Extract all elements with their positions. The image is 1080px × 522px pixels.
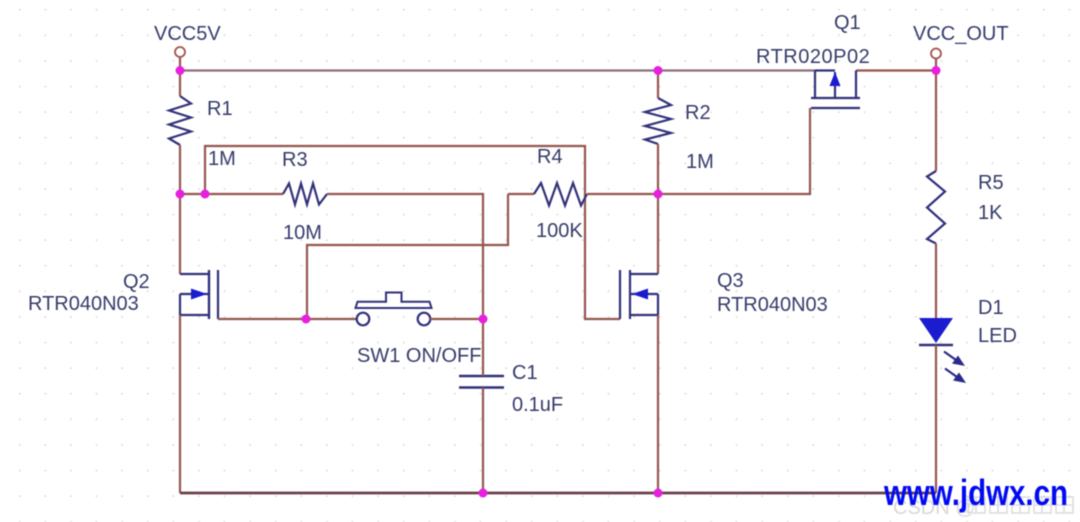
svg-text:VCC5V: VCC5V (154, 23, 221, 45)
svg-text:100K: 100K (536, 220, 583, 242)
svg-text:Q1: Q1 (834, 12, 861, 34)
diode D1 LED (919, 318, 953, 345)
value label LED (978, 325, 1017, 347)
label VCC5V (154, 23, 221, 45)
svg-text:Q3: Q3 (717, 270, 744, 292)
value label 100K (536, 220, 583, 242)
wire: gate feed to Q1 (658, 108, 810, 194)
resistor R4 (534, 183, 587, 206)
label R1 (207, 98, 233, 120)
power port VCC5V circle (175, 47, 185, 57)
value label 1M (R1) (208, 148, 236, 170)
wire: C1 top lead (482, 319, 484, 376)
svg-text:10M: 10M (283, 222, 322, 244)
wire: R4 node path to Q2 gate node (307, 194, 508, 319)
wire: R4 left lead (508, 193, 534, 195)
resistor R2 (645, 98, 671, 144)
wire: bottom ground rail (180, 492, 936, 495)
svg-text:VCC_OUT: VCC_OUT (913, 23, 1009, 45)
wire: Q2 drain (179, 194, 181, 274)
svg-text:RTR020P02: RTR020P02 (756, 46, 870, 68)
transistor Q2 (NMOS RTR040N03) (180, 270, 218, 319)
label Q1 (834, 12, 861, 34)
label SW1 ON/OFF (357, 345, 481, 367)
resistor R1 (169, 96, 191, 145)
wire: C1 bottom lead (482, 388, 484, 494)
wire: R1 bottom lead (179, 145, 181, 194)
junction: rail at VCC_OUT (932, 66, 941, 75)
wire: Q2 gate to SW1 (218, 318, 357, 320)
junction: SW1 right / C1 (479, 315, 488, 324)
value label 10M (283, 222, 322, 244)
label C1 (512, 362, 538, 384)
svg-text:0.1uF: 0.1uF (512, 394, 563, 416)
label D1 (978, 297, 1004, 319)
wire: R5 bottom lead (935, 244, 937, 319)
wire: R3 right lead to SW1 right node (327, 194, 483, 319)
wire: Q1 drain to VCC_OUT (856, 69, 936, 71)
capacitor C1 (459, 376, 504, 388)
junction: Q3 source at bottom rail (654, 489, 663, 498)
svg-text:R3: R3 (282, 149, 308, 171)
svg-text:RTR040N03: RTR040N03 (717, 294, 828, 316)
wire: R2 bottom lead (657, 144, 659, 194)
junction: VCC5V rail at R1 (176, 66, 185, 75)
wire: Q3 drain (657, 194, 659, 274)
svg-text:www.jdwx.cn: www.jdwx.cn (883, 472, 1068, 513)
label R2 (685, 102, 711, 124)
wire: VCC_OUT stub (935, 59, 937, 71)
wire: VCC5V stub (179, 57, 181, 71)
junction: R2 bottom node (654, 190, 663, 199)
LED emission arrows (944, 352, 966, 384)
resistor R3 (283, 184, 327, 205)
label R3 (282, 149, 308, 171)
wire: R4 right lead (587, 193, 658, 195)
wire: Q2 source to bottom rail (179, 315, 181, 493)
wire: R1 top lead (179, 71, 181, 97)
svg-text:C1: C1 (512, 362, 538, 384)
svg-text:1K: 1K (978, 202, 1003, 224)
wire: node row A to R3 (180, 193, 283, 195)
svg-text:R5: R5 (978, 172, 1004, 194)
wire: SW1 right pin (430, 318, 483, 320)
wire: top rail VCC5V to Q1 source (180, 69, 815, 71)
svg-text:LED: LED (978, 325, 1017, 347)
value label 0.1uF (512, 394, 563, 416)
label VCC_OUT (913, 23, 1009, 45)
label Q3 (717, 270, 744, 292)
junction: node B (R3 / Q3 gate feed) (201, 190, 210, 199)
svg-text:R1: R1 (207, 98, 233, 120)
wire: R2 top lead (657, 71, 659, 99)
wire: node B up and over to Q3 gate (205, 146, 620, 319)
junction: C1 at bottom rail (479, 489, 488, 498)
svg-text:RTR040N03: RTR040N03 (28, 293, 139, 315)
wire: Q3 source to bottom rail (657, 315, 659, 493)
value label RTR020P02 (756, 46, 870, 68)
transistor Q1 (PMOS RTR020P02) (811, 71, 860, 109)
junction: rail at R2 (654, 66, 663, 75)
junction: node A (R1/Q2 drain) (176, 190, 185, 199)
label R4 (537, 146, 563, 168)
resistor R5 (927, 171, 945, 244)
svg-text:1M: 1M (208, 148, 236, 170)
svg-text:R2: R2 (685, 102, 711, 124)
wire: R5 top lead (935, 71, 937, 172)
svg-text:R4: R4 (537, 146, 563, 168)
wire: LED cathode to bottom rail (935, 345, 937, 493)
value label RTR040N03 (Q2) (28, 293, 139, 315)
label R5 (978, 172, 1004, 194)
value label 1M (R2) (686, 151, 714, 173)
watermark www.jdwx.cn (883, 472, 1068, 513)
svg-text:SW1 ON/OFF: SW1 ON/OFF (357, 345, 481, 367)
svg-text:1M: 1M (686, 151, 714, 173)
power port VCC_OUT circle (931, 49, 941, 59)
junction: Q2 gate / SW1 left (302, 315, 311, 324)
svg-text:Q2: Q2 (123, 271, 150, 293)
value label 1K (978, 202, 1003, 224)
switch SW1 pushbutton (356, 293, 432, 326)
label Q2 (123, 271, 150, 293)
value label RTR040N03 (Q3) (717, 294, 828, 316)
watermark CSDN gray (893, 497, 1073, 519)
transistor Q3 (NMOS RTR040N03) (620, 270, 658, 319)
svg-text:D1: D1 (978, 297, 1004, 319)
